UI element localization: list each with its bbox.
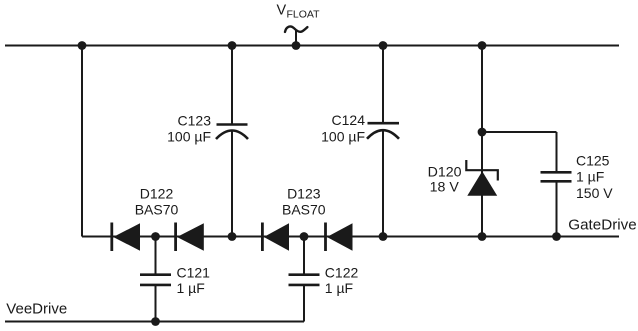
wire top rail VFLOAT — [5, 45, 619, 47]
capacitor C121 — [140, 264, 210, 296]
svg-text:1 µF: 1 µF — [325, 280, 353, 296]
capacitor C123 — [167, 112, 248, 144]
wire C125 horizontal branch — [482, 131, 557, 133]
wire C122 branch lower — [303, 285, 305, 322]
wire C123 branch lower — [231, 131, 233, 237]
wire C125 vertical upper — [556, 132, 558, 172]
node junction bottom rail C121 — [151, 317, 160, 326]
wire C124 branch lower — [382, 130, 384, 236]
svg-text:C125: C125 — [576, 152, 610, 168]
svg-text:GateDrive: GateDrive — [568, 216, 636, 233]
svg-text:C123: C123 — [178, 112, 212, 128]
node junction middle rail C123 — [228, 232, 237, 241]
diode D122 first half — [112, 223, 140, 252]
svg-text:V: V — [277, 3, 287, 19]
svg-text:FLOAT: FLOAT — [287, 9, 321, 21]
diode D123 first half — [262, 223, 289, 252]
diode D120 zener 18V — [428, 160, 498, 196]
svg-text:C121: C121 — [177, 264, 211, 280]
node junction D120 C125 branch — [478, 128, 487, 137]
svg-text:C124: C124 — [332, 112, 366, 128]
svg-text:BAS70: BAS70 — [282, 202, 326, 218]
svg-text:BAS70: BAS70 — [135, 202, 179, 218]
node junction top rail D120 — [478, 41, 487, 50]
svg-text:18 V: 18 V — [430, 180, 460, 196]
svg-text:D122: D122 — [140, 185, 174, 201]
diode D123 second half — [282, 185, 352, 251]
capacitor C125 — [541, 152, 614, 201]
node junction top rail C124 — [379, 41, 388, 50]
wire C125 vertical lower — [556, 182, 558, 237]
wire left vertical drop — [81, 46, 83, 237]
node junction top rail VFLOAT — [292, 41, 301, 50]
node junction middle rail C121 — [151, 232, 160, 241]
svg-text:VeeDrive: VeeDrive — [6, 300, 67, 317]
capacitor C122 — [289, 264, 359, 296]
wire C124 branch upper — [382, 46, 384, 124]
node junction top rail left — [78, 41, 87, 50]
wire C122 branch upper — [303, 237, 305, 275]
wire C123 branch upper — [231, 46, 233, 125]
svg-text:1 µF: 1 µF — [177, 280, 205, 296]
node junction top rail C123 — [228, 41, 237, 50]
node junction middle rail C125 GateDrive — [552, 232, 561, 241]
svg-text:D123: D123 — [287, 185, 321, 201]
node VFLOAT symbol — [277, 3, 321, 46]
svg-text:1 µF: 1 µF — [576, 169, 604, 185]
capacitor C124 — [321, 112, 399, 144]
svg-text:C122: C122 — [325, 264, 359, 280]
wire C121 branch upper — [155, 237, 157, 275]
svg-text:100 µF: 100 µF — [167, 129, 211, 145]
svg-text:D120: D120 — [428, 164, 462, 180]
wire bottom rail VeeDrive — [5, 321, 304, 323]
wire C121 branch lower — [155, 285, 157, 322]
svg-text:150 V: 150 V — [576, 185, 613, 201]
wire D120 branch — [481, 46, 483, 237]
node junction middle rail D120 — [478, 232, 487, 241]
node junction middle rail C122 — [300, 232, 309, 241]
svg-text:100 µF: 100 µF — [321, 129, 365, 145]
node junction middle rail C124 — [379, 232, 388, 241]
diode D122 second half — [135, 185, 204, 251]
wire middle rail — [82, 236, 619, 238]
